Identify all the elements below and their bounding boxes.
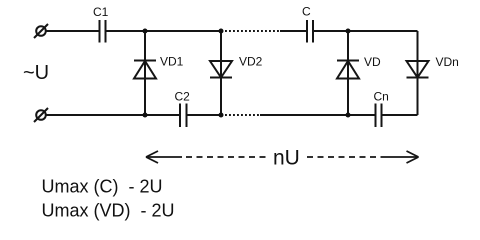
wire vertical branch n (right side): [417, 31, 419, 115]
wire bottom: Cn to right corner: [382, 114, 418, 116]
svg-text:C1: C1: [93, 5, 109, 19]
capacitor C2: [180, 104, 187, 128]
wire bottom: C2 to node: [187, 114, 223, 116]
terminal input top: [34, 24, 48, 38]
node top 2: [219, 29, 224, 34]
svg-text:VD: VD: [364, 55, 381, 69]
svg-text:nU: nU: [273, 147, 300, 170]
wire vertical branch 1: [144, 31, 146, 115]
diode VD1: [134, 61, 156, 79]
node bottom 3: [346, 113, 351, 118]
wire top dotted: [225, 30, 280, 32]
terminal input bottom: [34, 108, 48, 122]
dimension arrow nU: [146, 151, 419, 163]
svg-text:C2: C2: [175, 90, 191, 104]
node bottom 1: [143, 113, 148, 118]
svg-text:VD2: VD2: [239, 55, 263, 69]
svg-text:~U: ~U: [23, 62, 49, 84]
capacitor C1: [100, 20, 106, 43]
wire bottom: dotted end to Cn: [260, 114, 376, 116]
wire bottom: terminal to C2: [47, 114, 181, 116]
svg-text:Umax (C) - 2U: Umax (C) - 2U: [42, 177, 163, 197]
capacitor C: [307, 20, 313, 43]
wire vertical branch 2: [220, 31, 222, 115]
node top 1: [143, 29, 148, 34]
svg-text:C: C: [302, 5, 311, 19]
node bottom 2: [219, 113, 224, 118]
diode VD: [337, 61, 359, 79]
diode VDn: [407, 61, 429, 78]
svg-text:Umax (VD) - 2U: Umax (VD) - 2U: [42, 201, 175, 221]
wire top: C to right corner: [313, 30, 418, 32]
capacitor Cn: [376, 104, 382, 128]
svg-text:Cn: Cn: [374, 90, 389, 104]
svg-text:VD1: VD1: [160, 55, 184, 69]
node top 3: [346, 29, 351, 34]
wire bottom dotted: [225, 114, 260, 116]
diode VD2: [210, 61, 232, 78]
wire top: dotted end to C: [280, 30, 307, 32]
wire top: C1 to node B: [106, 30, 223, 32]
wire top: terminal to C1: [47, 30, 100, 32]
svg-text:VDn: VDn: [436, 55, 459, 69]
wire vertical branch 3: [347, 31, 349, 115]
